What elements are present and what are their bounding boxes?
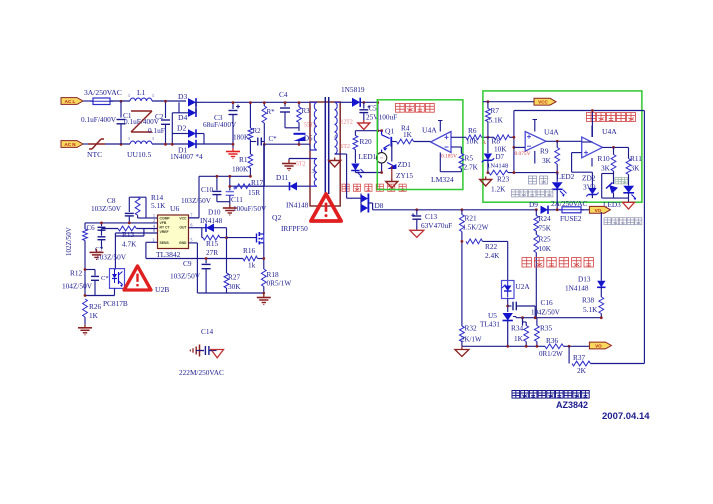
wire U6 vcc feed — [198, 176, 200, 218]
wire bottom rail — [462, 345, 545, 347]
svg-text:D5: D5 — [304, 135, 313, 143]
junction — [263, 101, 266, 104]
wire R13 left — [102, 228, 119, 230]
svg-text:R24: R24 — [539, 214, 552, 223]
junction — [216, 175, 219, 178]
junction — [164, 100, 167, 103]
junction — [298, 143, 301, 146]
svg-text:R32: R32 — [465, 324, 478, 333]
svg-text:2: 2 — [153, 219, 155, 223]
wire R20 to LED — [354, 150, 356, 164]
diode D3 1N4007 — [188, 98, 196, 106]
svg-text:ZD1: ZD1 — [398, 160, 412, 169]
capacitor C3 68uF/400V — [232, 102, 234, 109]
resistor R9 3K — [556, 141, 558, 147]
junction — [521, 316, 524, 319]
svg-text:R7: R7 — [491, 106, 500, 115]
diode D2 1N4007 — [172, 133, 188, 135]
capacitor C5 25V100uF — [363, 102, 365, 108]
junction — [298, 101, 301, 104]
junction — [228, 175, 231, 178]
svg-text:0R1/2W: 0R1/2W — [539, 350, 563, 358]
group box indicator control — [483, 91, 642, 202]
label indicator control title — [587, 113, 596, 122]
resistor R18 0R5/1W — [261, 269, 266, 287]
svg-text:8: 8 — [153, 229, 155, 233]
junction — [461, 208, 464, 211]
svg-text:LM324: LM324 — [431, 175, 454, 184]
junction — [225, 236, 228, 239]
port LEDs — [623, 202, 635, 209]
svg-text:R15: R15 — [206, 239, 219, 248]
svg-text:100uF/50V: 100uF/50V — [233, 204, 267, 213]
junction — [591, 109, 594, 112]
wire vcc into box — [377, 102, 379, 130]
svg-text:10K: 10K — [539, 244, 552, 253]
net port AC L — [61, 98, 83, 105]
resistor R24 75K — [535, 210, 537, 216]
net port AC N — [61, 141, 83, 148]
junction — [232, 143, 235, 146]
secondary return arrow — [334, 158, 336, 161]
wire opamp2 out — [603, 146, 629, 148]
wire sec bottom — [335, 153, 347, 155]
ground R18 — [263, 294, 265, 298]
U6 pin5 GND stub — [188, 242, 197, 244]
diode D4 1N4007 — [179, 112, 188, 114]
svg-text:C6: C6 — [87, 224, 96, 232]
junction — [556, 140, 559, 143]
wire D12 to C5 — [360, 101, 378, 103]
svg-text:2.7K: 2.7K — [464, 163, 479, 172]
svg-text:R23: R23 — [497, 175, 510, 184]
junction — [461, 240, 464, 243]
junction — [249, 101, 252, 104]
zener D5 — [294, 133, 306, 135]
group box fan control — [377, 100, 463, 190]
svg-text:UU10.5: UU10.5 — [127, 150, 151, 159]
svg-text:30K: 30K — [228, 282, 241, 291]
svg-text:U2B: U2B — [155, 285, 169, 294]
wire LED bottom — [354, 171, 356, 173]
junction — [612, 146, 615, 149]
U6 pin6 OUT stub — [188, 227, 201, 229]
svg-text:VO: VO — [595, 208, 602, 213]
svg-text:180K: 180K — [233, 133, 250, 142]
wire D9 fuse — [548, 209, 562, 211]
resistor R23 1.2K — [489, 170, 508, 175]
junction — [120, 143, 123, 146]
junction — [525, 345, 528, 348]
wire R37 branch — [568, 346, 570, 363]
wire fuse to port — [581, 209, 589, 211]
svg-text:1K: 1K — [89, 311, 99, 320]
svg-text:3K: 3K — [542, 156, 552, 165]
label red color — [529, 176, 537, 184]
resistor R27 30K — [224, 273, 229, 288]
svg-text:R16: R16 — [243, 246, 256, 255]
junction — [487, 136, 490, 139]
svg-text:R2: R2 — [253, 127, 262, 135]
mosfet Q2 IRFPF50 — [256, 234, 258, 243]
resistor R13 4.7K — [118, 226, 136, 231]
svg-text:10K: 10K — [466, 137, 479, 146]
junction — [380, 129, 383, 132]
wire gate — [227, 237, 257, 239]
ground R26 — [84, 324, 86, 328]
resistor R21 1.5K/2W — [461, 210, 463, 215]
junction — [535, 208, 538, 211]
svg-text:27R: 27R — [206, 248, 218, 257]
resistor R36 0R1/2W — [545, 344, 564, 349]
svg-text:1.2K: 1.2K — [491, 185, 506, 194]
junction — [487, 171, 490, 174]
PC817 internals — [112, 274, 117, 279]
svg-text:7: 7 — [191, 214, 193, 218]
svg-text:VCC: VCC — [179, 217, 187, 221]
svg-text:6: 6 — [191, 224, 193, 228]
svg-text:U2A: U2A — [516, 282, 531, 291]
svg-text:102Z/50V: 102Z/50V — [65, 227, 73, 256]
op-amp U4A fan — [431, 132, 451, 153]
svg-text:R10: R10 — [598, 154, 611, 163]
svg-text:C*: C* — [269, 135, 278, 143]
wire LED green node — [602, 173, 614, 175]
fuse FUSE2 — [562, 207, 581, 213]
fuse F1 3A/250VAC — [93, 98, 110, 105]
wire R15 node vert — [226, 228, 228, 273]
resistor R22 2.4K — [466, 239, 483, 244]
svg-text:63V470uF: 63V470uF — [421, 221, 452, 230]
svg-text:R20: R20 — [360, 137, 373, 146]
diode D13 1N4148 — [597, 281, 605, 288]
junction — [84, 294, 87, 297]
svg-text:U4A: U4A — [422, 126, 437, 135]
svg-text:1: 1 — [152, 93, 154, 98]
junction — [534, 316, 537, 319]
svg-text:2K: 2K — [577, 366, 587, 375]
diode D1 1N4007 — [188, 140, 196, 148]
svg-text:3: 3 — [312, 168, 315, 175]
wire sec to D12 — [340, 101, 352, 103]
wire sense rail — [146, 258, 243, 260]
capacitor C16 104Z/50V — [508, 305, 512, 307]
svg-text:AC L: AC L — [65, 99, 76, 104]
svg-text:0.185V: 0.185V — [441, 154, 457, 160]
wire PC817 top — [114, 269, 116, 270]
net port VCC — [534, 98, 556, 105]
svg-text:5.1K: 5.1K — [151, 201, 166, 210]
transformer primary winding — [310, 101, 317, 103]
label fast charge indicator — [512, 190, 519, 197]
svg-text:2.4K: 2.4K — [485, 251, 500, 260]
junction — [513, 136, 516, 139]
svg-text:U4A: U4A — [544, 128, 559, 137]
junction — [205, 257, 208, 260]
wire bridge right vert — [195, 102, 197, 113]
wire VREF loop — [114, 233, 116, 270]
thermistor NTC — [88, 143, 105, 145]
junction — [513, 171, 516, 174]
svg-text:LED1: LED1 — [359, 152, 377, 161]
resistor R17 15R — [235, 184, 251, 189]
junction — [487, 100, 490, 103]
svg-text:103Z/50V: 103Z/50V — [181, 196, 212, 205]
svg-text:IRFPF50: IRFPF50 — [281, 224, 308, 233]
U2A internals — [504, 286, 512, 292]
resistor R11 3K — [628, 147, 630, 158]
wire fuse to L1 — [110, 100, 130, 102]
resistor R6 10K — [466, 135, 482, 140]
capacitor C9 103Z/50V — [205, 259, 207, 264]
svg-text:1.5K/2W: 1.5K/2W — [463, 224, 489, 232]
svg-text:C11: C11 — [231, 195, 243, 204]
junction — [513, 146, 516, 149]
wire ref tap — [515, 317, 517, 318]
svg-text:104Z/50V: 104Z/50V — [531, 309, 560, 317]
wire gnd rail bottom — [198, 292, 264, 294]
shunt ref U5 TL431 — [503, 313, 513, 321]
wire D11 left — [230, 185, 290, 187]
resistor R35 — [536, 318, 538, 326]
svg-text:103Z/50V: 103Z/50V — [96, 253, 127, 262]
junction — [600, 316, 603, 319]
svg-text:2007.04.14: 2007.04.14 — [602, 411, 650, 422]
wire PC817 bottom — [114, 288, 116, 295]
wire plus rail — [514, 110, 645, 112]
svg-text:R34: R34 — [511, 324, 524, 333]
svg-text:R*: R* — [267, 108, 276, 116]
diode D12 1N5819 — [352, 98, 360, 107]
svg-text:2K/1W: 2K/1W — [461, 336, 482, 344]
op-amp U4A ind2 — [582, 137, 603, 158]
svg-text:TL431: TL431 — [480, 320, 500, 329]
svg-text:1k: 1k — [248, 261, 256, 270]
junction — [568, 345, 571, 348]
port C14 right — [211, 350, 224, 358]
svg-text:3K: 3K — [601, 164, 611, 173]
svg-text:R35: R35 — [540, 324, 553, 333]
svg-text:1N5819: 1N5819 — [341, 85, 365, 94]
capacitor C4 — [284, 102, 286, 106]
U6 pin4 RT/CT — [136, 228, 157, 230]
wire Q1 base — [391, 141, 396, 143]
varistor Z symbol — [131, 110, 152, 112]
svg-text:R25: R25 — [539, 235, 552, 244]
opamp power pins — [439, 121, 441, 132]
svg-text:D11: D11 — [276, 173, 289, 182]
resistor R38 5.1K — [599, 297, 604, 314]
junction — [232, 101, 235, 104]
svg-text:R12: R12 — [70, 269, 83, 278]
optocoupler U2A box — [502, 281, 515, 299]
op-amp U4A ind1 — [525, 132, 546, 152]
svg-text:R3: R3 — [302, 107, 311, 115]
svg-text:3A/250VAC: 3A/250VAC — [84, 88, 122, 97]
U6 pin1 COMP — [146, 217, 158, 219]
svg-text:C*: C* — [101, 275, 109, 282]
U6 pin2 VFB — [85, 222, 158, 224]
capacitor C14 222M/250VAC — [196, 350, 204, 352]
svg-text:IN4148: IN4148 — [286, 201, 309, 210]
svg-text:C14: C14 — [201, 327, 214, 336]
svg-text:15R: 15R — [248, 188, 260, 197]
junction — [506, 305, 509, 308]
svg-text:D7: D7 — [496, 153, 505, 161]
ground C13 — [410, 230, 424, 237]
svg-text:VCC: VCC — [538, 100, 548, 105]
LED2 red — [556, 173, 558, 182]
svg-text:1: 1 — [128, 93, 130, 98]
transistor Q1 — [381, 131, 383, 135]
svg-text:R13: R13 — [122, 230, 135, 239]
wire bridge left vert — [178, 102, 180, 113]
resistor R12 — [84, 223, 86, 229]
svg-text:R6: R6 — [468, 126, 477, 135]
junction — [171, 143, 174, 146]
svg-text:C4: C4 — [279, 90, 288, 99]
wire L1 to bridge — [152, 100, 186, 102]
svg-text:RT CT: RT CT — [160, 226, 171, 230]
svg-text:R1: R1 — [239, 155, 248, 164]
junction — [263, 143, 266, 146]
svg-text:VREF: VREF — [160, 230, 169, 234]
resistor R* snubber — [263, 102, 265, 106]
svg-text:OUT: OUT — [179, 226, 187, 230]
ground C14 left — [200, 350, 205, 352]
dual diode D8 — [361, 195, 368, 203]
svg-text:1: 1 — [153, 214, 155, 218]
svg-text:C2: C2 — [155, 112, 164, 121]
wire drain rail — [264, 143, 310, 145]
transformer secondary winding — [335, 101, 341, 103]
resistor R20 — [354, 131, 356, 136]
junction — [164, 143, 167, 146]
svg-text:R22: R22 — [485, 242, 498, 251]
svg-text:1: 1 — [128, 136, 130, 141]
svg-text:Q1: Q1 — [385, 127, 394, 136]
junction — [556, 171, 559, 174]
capacitor C11 100uF/50V — [229, 176, 231, 190]
resistor R25 10K — [535, 231, 537, 235]
net port VO — [589, 342, 611, 349]
junction — [362, 101, 365, 104]
wire R17 to drain line — [251, 185, 265, 187]
junction — [263, 292, 266, 295]
svg-text:C10: C10 — [201, 185, 214, 194]
svg-text:R26: R26 — [89, 302, 102, 311]
wire bridge + rail — [204, 101, 310, 103]
svg-text:103Z/50V: 103Z/50V — [91, 204, 122, 213]
resistor R15 27R — [203, 235, 220, 240]
wire D4 anode tie — [172, 112, 179, 114]
net port VO+ — [589, 206, 610, 213]
ground C3 — [232, 148, 234, 152]
capacitor C6 — [101, 223, 103, 226]
junction — [536, 345, 539, 348]
junction — [228, 185, 231, 188]
IC U6 TL3842 box — [158, 215, 189, 249]
wire right rail — [643, 111, 645, 364]
svg-text:D3: D3 — [178, 92, 187, 101]
transformer aux winding — [310, 158, 317, 160]
wire LED bottoms — [602, 197, 629, 199]
svg-text:5.1K: 5.1K — [489, 116, 504, 125]
junction — [249, 175, 252, 178]
wire vcc top rail — [199, 175, 250, 177]
svg-text:12T2: 12T2 — [341, 120, 353, 126]
svg-text:1K: 1K — [403, 130, 413, 139]
wire U2A bottom — [507, 299, 509, 313]
svg-text:C5: C5 — [369, 105, 378, 113]
svg-text:R9: R9 — [540, 147, 549, 156]
svg-text:C16: C16 — [541, 298, 554, 307]
zener ZD2 3V9 — [588, 188, 596, 195]
svg-text:D9: D9 — [529, 200, 538, 209]
wire ACN up to D2 — [171, 113, 173, 144]
junction — [128, 222, 131, 225]
svg-text:LED2: LED2 — [557, 172, 575, 181]
svg-text:C13: C13 — [425, 212, 438, 221]
zener ZD1 ZY15 — [391, 143, 393, 162]
wire minus stub — [514, 146, 525, 148]
LED green — [609, 185, 618, 194]
svg-text:R27: R27 — [228, 273, 241, 282]
svg-text:Q2: Q2 — [272, 213, 281, 222]
svg-text:D13: D13 — [578, 275, 591, 284]
svg-text:103Z/50V: 103Z/50V — [170, 272, 201, 281]
wire opamp minus — [451, 146, 461, 148]
svg-text:5: 5 — [191, 239, 193, 243]
U6 pin8 VREF — [115, 232, 157, 234]
zener D7 1N4148 — [487, 137, 489, 153]
wire opamp plus — [451, 136, 466, 138]
resistor R16 1k — [243, 256, 258, 261]
U6 pin3 SENS — [146, 241, 158, 243]
wire Q2 drain — [263, 144, 265, 234]
svg-text:R5: R5 — [465, 154, 474, 163]
svg-text:SENS: SENS — [160, 241, 170, 245]
junction — [415, 208, 418, 211]
wire D2-D1 right — [196, 133, 204, 135]
diode D11 1N4148 — [290, 182, 298, 190]
LED float — [623, 186, 634, 193]
label fan power indicator — [342, 184, 349, 191]
port D7 node — [485, 177, 487, 180]
resistor R37 2K — [572, 361, 591, 366]
svg-text:AC N: AC N — [64, 142, 76, 147]
ground R32 — [455, 350, 469, 357]
ground C7 — [96, 249, 98, 253]
junction — [376, 101, 379, 104]
junction — [120, 100, 123, 103]
capacitor C1 0.1uF/400V — [120, 101, 122, 118]
label float charge indicator — [604, 218, 611, 225]
svg-text:COMP: COMP — [160, 217, 171, 221]
svg-text:IN4148: IN4148 — [200, 216, 223, 225]
transformer outline — [310, 102, 340, 206]
svg-text:C9: C9 — [183, 259, 192, 268]
svg-text:ZD2: ZD2 — [582, 174, 596, 183]
junction — [284, 101, 287, 104]
resistor R10 3K — [613, 147, 615, 154]
inductor L1 choke winding top — [130, 98, 152, 101]
svg-text:0.1uF/400V: 0.1uF/400V — [81, 115, 117, 124]
label voltage control circuit — [522, 258, 531, 267]
junction — [84, 268, 87, 271]
svg-text:1N4007 *4: 1N4007 *4 — [170, 152, 203, 161]
svg-text:D4: D4 — [178, 113, 187, 122]
